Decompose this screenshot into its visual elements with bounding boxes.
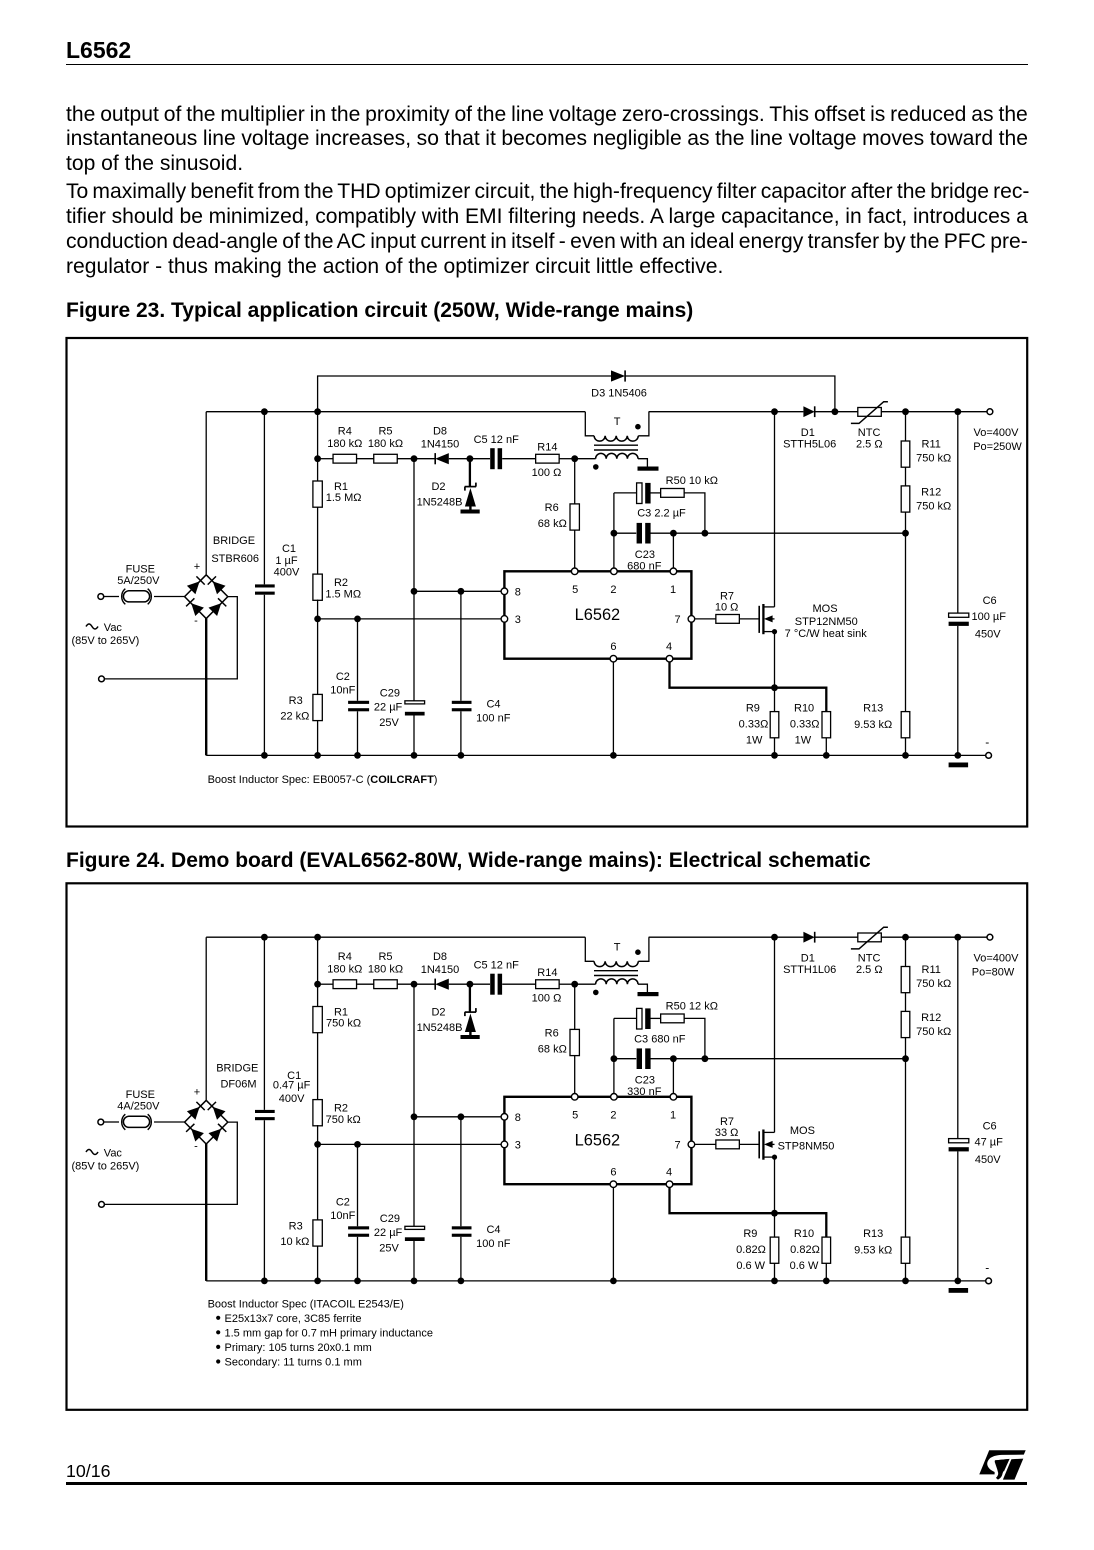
svg-text:3: 3 [515,1139,521,1151]
pin 1 [670,568,677,596]
node C6 ground [954,752,961,759]
wire pin4 net [670,1188,827,1238]
svg-text:C6: C6 [983,1121,997,1133]
svg-text:750 kΩ: 750 kΩ [916,453,951,465]
svg-text:6: 6 [610,641,616,653]
svg-text:0.33Ω: 0.33Ω [739,719,769,731]
svg-text:C6: C6 [983,595,997,607]
svg-text:STTH5L06: STTH5L06 [783,439,836,451]
wire pin6 down [612,662,614,755]
wire R2 to pin3 row [317,1125,319,1144]
svg-text:STTH1L06: STTH1L06 [783,964,836,976]
wire pin8 row [414,1116,501,1118]
node C1 ground [261,752,268,759]
node Vac-bottom terminal [99,676,105,682]
diode D1 [783,932,836,976]
wire top rail [206,936,987,938]
IC U1 L6562 [504,1097,691,1184]
wire D3 bypass branch [318,376,835,412]
node R1 junction [314,934,321,941]
resistor R10 [790,703,831,756]
wire R2 to pin3 row [317,600,319,619]
svg-text:C4: C4 [486,1224,500,1236]
svg-text:E25x13x7 core, 3C85 ferrite: E25x13x7 core, 3C85 ferrite [225,1313,362,1325]
svg-text:25V: 25V [379,1242,399,1254]
header title L6562 [66,39,131,62]
wire pin3 row [318,618,502,620]
node R6 junction [571,455,578,462]
node D2 junction [467,981,474,988]
resistor R11 750k [901,412,951,468]
node C23 left junction [611,1055,618,1062]
pin 4 [666,1167,673,1188]
svg-text:R4: R4 [338,951,352,963]
svg-text:1 µF: 1 µF [275,555,298,567]
svg-text:D3 1N5406: D3 1N5406 [591,387,647,399]
svg-text:Vo=400V: Vo=400V [974,427,1020,439]
svg-text:C4: C4 [486,698,500,710]
svg-text:100 nF: 100 nF [476,1238,511,1250]
pin 3 [501,614,521,626]
node pin6 ground junction [610,752,617,759]
node source sense junction [771,1210,778,1217]
wire pin6 down [612,1188,614,1281]
bridge label [216,1063,258,1091]
svg-text:Vo=400V: Vo=400V [974,953,1020,965]
resistor R5 180k [357,951,403,989]
svg-text:STBR606: STBR606 [211,553,259,565]
svg-text:0.6 W: 0.6 W [736,1260,765,1272]
resistor R6 68k [538,984,580,1093]
capacitor C2 10nF [330,1144,369,1281]
node C4 ground [458,752,465,759]
svg-text:1.5 MΩ: 1.5 MΩ [326,492,362,504]
transformer T secondary [575,453,648,469]
svg-text:7: 7 [675,614,681,626]
paragraph 1 [66,104,1028,125]
svg-text:10 Ω: 10 Ω [715,602,739,614]
svg-text:10nF: 10nF [330,684,355,696]
capacitor C23 [614,1048,906,1098]
node R12 R13 junction [902,1055,909,1062]
pin 6 [610,641,617,662]
diode D8 1N4150 [421,951,470,990]
pin 2 [610,568,617,596]
svg-text:9.53 kΩ: 9.53 kΩ [854,1245,892,1257]
svg-text:-: - [985,1261,989,1275]
node R13 ground [902,752,909,759]
svg-text:+: + [194,1086,200,1098]
capacitor C1 1uF 400V [255,412,300,756]
node Vac-top terminal [98,1119,104,1125]
node source sense junction [771,684,778,691]
svg-text:1: 1 [670,1110,676,1122]
pin 8 [501,586,521,598]
svg-text:C5 12 nF: C5 12 nF [474,960,520,972]
svg-text:4: 4 [666,641,672,653]
node C29 ground [411,752,418,759]
node D2 junction [467,455,474,462]
svg-text:100 Ω: 100 Ω [532,467,562,479]
node C23 left junction [611,530,618,537]
resistor R50 [661,475,718,533]
node R11 rail junction [902,408,909,415]
wire pin1 up [672,533,674,568]
svg-text:47 µF: 47 µF [975,1137,1004,1149]
node D8 junction [411,455,418,462]
diode D8 1N4150 [421,426,470,465]
svg-text:0.33Ω: 0.33Ω [790,719,820,731]
svg-text:Primary: 105 turns 20x0.1 mm: Primary: 105 turns 20x0.1 mm [225,1342,372,1354]
svg-text:D2: D2 [431,481,445,493]
svg-text:NTC: NTC [858,427,881,439]
svg-text:C3 680 nF: C3 680 nF [634,1034,686,1046]
wire pin2 up [613,1018,615,1093]
svg-text:1.5 mm gap for 0.7 mH primary: 1.5 mm gap for 0.7 mH primary inductance [225,1328,433,1340]
wire [104,597,237,679]
svg-text:-: - [985,735,989,749]
paragraph 2 [66,181,1028,202]
wire bridge- to bottom rail [205,619,207,756]
svg-text:C2: C2 [336,671,350,683]
svg-text:1W: 1W [746,735,763,747]
wire R3 to bottom rail [317,1246,319,1281]
svg-text:R4: R4 [338,426,352,438]
resistor R4 180k [318,951,363,989]
wire pin1 up [672,1059,674,1094]
svg-text:4A/250V: 4A/250V [117,1100,160,1112]
svg-text:Boost Inductor Spec: EB0057-C: Boost Inductor Spec: EB0057-C (COILCRAFT… [208,774,438,786]
resistor R14 100ohm [532,442,575,479]
footer page number [66,1463,111,1481]
svg-text:5: 5 [572,1110,578,1122]
bridge label [211,535,259,565]
svg-text:R14: R14 [537,442,557,454]
svg-text:Boost Inductor Spec (ITACOIL E: Boost Inductor Spec (ITACOIL E2543/E) [208,1299,404,1311]
node pin3 row junction [314,1141,321,1148]
svg-text:R13: R13 [863,1228,883,1240]
svg-text:FUSE: FUSE [126,563,155,575]
svg-text:R11: R11 [922,439,941,451]
node C2 ground [354,752,361,759]
fuse F1 5A/250V [122,589,152,605]
wire [397,983,435,985]
node R1 junction [314,408,321,415]
svg-text:100 Ω: 100 Ω [532,992,562,1004]
svg-text:R3: R3 [289,1221,303,1233]
wire [154,596,185,598]
node D8 junction [411,981,418,988]
svg-text:6: 6 [610,1167,616,1179]
svg-text:7 °C/W heat sink: 7 °C/W heat sink [785,628,868,640]
note boost inductor spec [208,774,438,786]
svg-text:2.5 Ω: 2.5 Ω [856,439,883,451]
svg-text:330 nF: 330 nF [627,1086,662,1098]
capacitor C23 [614,523,906,573]
wire bridge+ to rail [205,937,207,1100]
svg-text:R11: R11 [922,964,941,976]
svg-text:R5: R5 [378,426,392,438]
svg-text:Po=250W: Po=250W [973,441,1022,453]
wire R3 to bottom rail [317,721,319,756]
header rule [66,64,1028,66]
fuse label [117,563,160,587]
svg-text:R6: R6 [545,502,559,514]
svg-text:180 kΩ: 180 kΩ [368,438,403,450]
resistor R3 [280,619,322,723]
pin 5 [571,1094,578,1122]
svg-text:FUSE: FUSE [126,1089,155,1101]
resistor R1 [313,412,362,508]
pin 6 [610,1167,617,1188]
resistor R9 [739,688,779,756]
svg-text:C2: C2 [336,1197,350,1209]
node R9 ground [771,752,778,759]
node C2 junction [354,616,361,623]
node C4 ground [458,1278,465,1285]
svg-text:C1: C1 [282,543,296,555]
svg-text:1: 1 [670,584,676,596]
svg-text:BRIDGE: BRIDGE [213,535,255,547]
resistor R9 [736,1213,779,1281]
svg-text:R14: R14 [537,967,557,979]
resistor R50 [661,1001,718,1059]
svg-text:0.6 W: 0.6 W [790,1260,819,1272]
capacitor C5 12nF [470,434,536,469]
svg-text:DF06M: DF06M [220,1079,256,1091]
node C29 ground [411,1278,418,1285]
node C2 junction [354,1141,361,1148]
wire bottom rail [206,754,986,756]
node Vac-top terminal [98,594,104,600]
svg-text:T: T [614,942,621,954]
pin 7 [675,614,695,626]
node R12 R13 junction [902,530,909,537]
resistor R1 [313,937,361,1032]
zener diode D2 1N5248B [417,984,480,1039]
thermistor NTC 2.5ohm [851,402,888,451]
pin 1 [670,1094,677,1122]
wire bridge- to bottom rail [205,1144,207,1281]
svg-text:D2: D2 [431,1007,445,1019]
wire MOS drain up [774,937,776,1132]
pin 3 [501,1139,521,1151]
capacitor C1 0.47uF 400V [255,937,311,1281]
transformer T secondary [575,979,648,995]
ST logo [979,1450,1025,1479]
svg-text:R12: R12 [921,1012,941,1024]
svg-text:(85V to 265V): (85V to 265V) [71,1161,139,1173]
node MOS drain rail junction [771,408,778,415]
ground output [949,763,969,768]
node pin1 top junction [670,530,677,537]
note boost inductor spec [208,1299,433,1369]
bridge rectifier STBR606 [185,561,228,627]
wire [104,1122,237,1204]
wire D8 junction down [413,984,415,1117]
node R10 ground [823,1278,830,1285]
svg-text:100 µF: 100 µF [971,611,1006,623]
node R3 ground [314,1278,321,1285]
resistor R2 [313,1033,361,1126]
node C29 junction [411,588,418,595]
svg-text:33 Ω: 33 Ω [715,1127,739,1139]
svg-text:-: - [194,615,198,627]
svg-text:750 kΩ: 750 kΩ [916,501,951,513]
wire [104,596,119,598]
wire pin4 net [670,662,827,712]
resistor R4 180k [318,426,363,464]
capacitor C2 10nF [330,619,369,756]
svg-text:+: + [194,561,200,573]
svg-text:D1: D1 [801,427,815,439]
svg-text:R10: R10 [794,1228,814,1240]
wire pin2 up [613,493,615,568]
svg-text:180 kΩ: 180 kΩ [327,438,362,450]
figure 24 caption [66,850,871,871]
svg-text:R13: R13 [863,703,883,715]
transformer T core [594,445,638,450]
resistor R7 [695,591,760,624]
node minus terminal [985,735,991,758]
node R3 ground [314,752,321,759]
figure 24 schematic [0,875,1094,1420]
svg-text:750 kΩ: 750 kΩ [326,1114,361,1126]
node R50 corner junction [702,530,709,537]
resistor R10 [790,1228,831,1281]
svg-text:2: 2 [610,1110,616,1122]
capacitor C4 100nF [452,1117,511,1281]
svg-text:1N4150: 1N4150 [421,964,460,976]
svg-text:Vac: Vac [104,1148,123,1160]
transformer T core [594,971,638,976]
capacitor C6 [949,937,1004,1281]
node Vac-bottom terminal [99,1202,105,1208]
node minus terminal [985,1261,991,1284]
Vac source label [71,1148,139,1173]
zener diode D2 1N5248B [417,459,480,514]
wire bridge+ to rail [205,412,207,575]
resistor R2 [313,507,361,600]
capacitor C5 12nF [470,960,536,995]
svg-text:D8: D8 [433,951,447,963]
svg-text:100 nF: 100 nF [476,713,511,725]
svg-text:3: 3 [515,614,521,626]
svg-text:Secondary: 11 turns 0.1 mm: Secondary: 11 turns 0.1 mm [225,1357,362,1369]
svg-text:0.82Ω: 0.82Ω [790,1244,820,1256]
svg-text:R50 12 kΩ: R50 12 kΩ [666,1001,718,1013]
resistor R6 68k [538,459,580,568]
resistor R13 9.53k [854,1059,910,1281]
node R9 ground [771,1278,778,1285]
wire pin8 row [414,590,501,592]
node R4 branch junction [314,455,321,462]
resistor R12 750k [901,993,951,1059]
pin 7 [675,1139,695,1151]
node Vo terminal [973,409,1022,453]
node C6 rail junction [954,408,961,415]
svg-text:C5 12 nF: C5 12 nF [474,434,520,446]
svg-text:BRIDGE: BRIDGE [216,1063,258,1075]
svg-text:R12: R12 [921,487,941,499]
svg-text:NTC: NTC [858,953,881,965]
wire MOS source down [774,1157,776,1213]
svg-text:D1: D1 [801,953,815,965]
svg-text:1W: 1W [795,735,812,747]
footer rule [66,1482,1027,1485]
node D3 return junction [832,408,839,415]
svg-text:7: 7 [675,1139,681,1151]
svg-text:180 kΩ: 180 kΩ [327,964,362,976]
node R10 ground [823,752,830,759]
IC U1 L6562 [504,571,691,658]
svg-text:22 µF: 22 µF [374,702,403,714]
svg-text:1.5 MΩ: 1.5 MΩ [325,589,361,601]
svg-text:Po=80W: Po=80W [972,967,1015,979]
resistor R14 100ohm [532,967,575,1004]
svg-text:R9: R9 [743,1228,757,1240]
svg-text:450V: 450V [975,629,1001,641]
node C6 ground [954,1278,961,1285]
node C4 junction [458,1113,465,1120]
node R50 corner junction [702,1055,709,1062]
svg-text:R3: R3 [289,695,303,707]
svg-text:25V: 25V [379,717,399,729]
capacitor C29 22uF 25V [374,591,425,755]
svg-text:Vac: Vac [104,622,123,634]
pin 5 [571,568,578,596]
svg-text:5A/250V: 5A/250V [117,575,160,587]
svg-text:MOS: MOS [790,1125,815,1137]
fuse label [117,1089,160,1113]
wire [397,458,435,460]
svg-text:0.82Ω: 0.82Ω [736,1244,766,1256]
capacitor C29 22uF 25V [374,1117,425,1281]
figure frame [67,883,1028,1410]
svg-text:9.53 kΩ: 9.53 kΩ [854,719,892,731]
svg-text:22 kΩ: 22 kΩ [280,711,309,723]
thermistor NTC 2.5ohm [851,927,888,976]
svg-text:10nF: 10nF [330,1210,355,1222]
node R13 ground [902,1278,909,1285]
pin 2 [610,1094,617,1122]
svg-text:8: 8 [515,1112,521,1124]
node Vo terminal [972,934,1019,978]
node C29 junction [411,1113,418,1120]
node R4 branch junction [314,981,321,988]
wire MOS drain up [774,412,776,607]
node C4 junction [458,588,465,595]
svg-text:R9: R9 [746,703,760,715]
node R6 junction [571,981,578,988]
Vac source label [71,622,139,647]
svg-text:T: T [614,416,621,428]
wire pin3 row [318,1143,502,1145]
MOSFET Q1 [759,603,867,640]
svg-text:R10: R10 [794,703,814,715]
capacitor C4 100nF [452,591,511,755]
svg-text:450V: 450V [975,1154,1001,1166]
figure frame [67,338,1028,827]
node C1 junction [261,408,268,415]
svg-text:180 kΩ: 180 kΩ [368,964,403,976]
svg-text:22 µF: 22 µF [374,1227,403,1239]
svg-text:R2: R2 [334,577,348,589]
wire D8 junction down [413,459,415,592]
transformer T primary [585,937,649,966]
resistor R3 [280,1144,322,1248]
svg-text:0.47 µF: 0.47 µF [273,1080,311,1092]
